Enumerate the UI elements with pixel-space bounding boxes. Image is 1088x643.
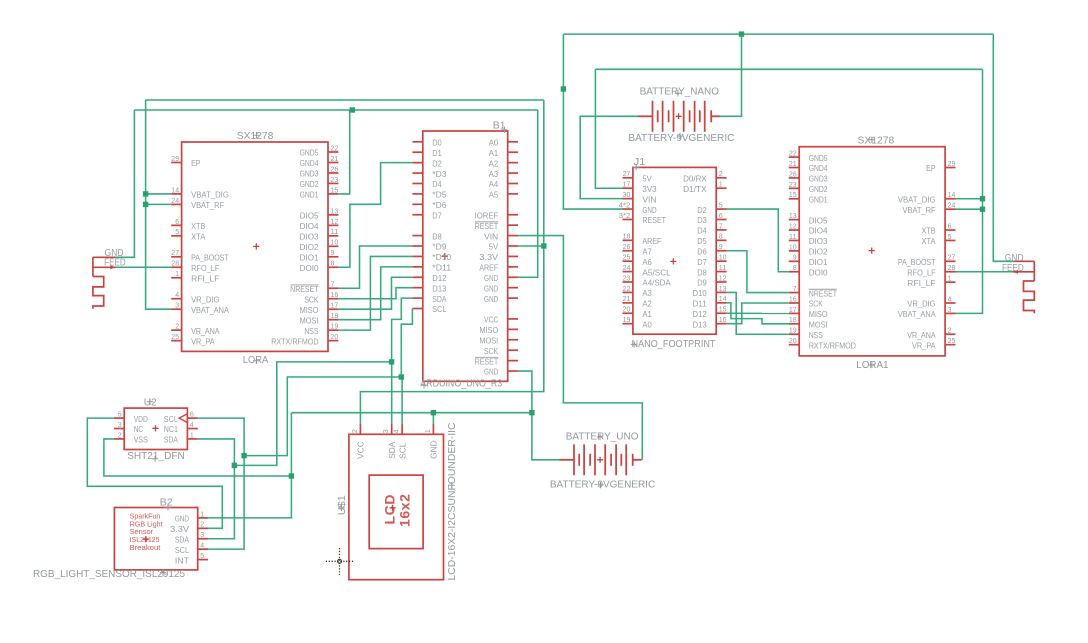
svg-text:LCD: LCD [382, 494, 398, 525]
svg-text:3: 3 [175, 301, 179, 310]
J1 pin 8 D5 [697, 232, 726, 246]
svg-text:12: 12 [789, 221, 797, 230]
B1 pin SCK [484, 346, 518, 356]
label B2 [160, 497, 173, 508]
svg-text:MISO: MISO [300, 305, 319, 315]
svg-text:VCC: VCC [356, 441, 366, 459]
LORA pin 10 DIO2 [300, 238, 339, 252]
IC LORA1 SX1278 body [799, 147, 945, 356]
svg-text:16: 16 [719, 315, 727, 324]
svg-text:SCL: SCL [397, 442, 407, 459]
svg-text:GND3: GND3 [809, 174, 828, 184]
junction GND J1 riser mid [561, 86, 566, 91]
svg-text:22: 22 [789, 149, 797, 158]
svg-text:GND: GND [429, 440, 439, 458]
LORA pin 28 RFO_LF [171, 259, 219, 273]
svg-text:SCL: SCL [432, 304, 446, 314]
B1 pin MISO [479, 325, 518, 335]
svg-text:SDA: SDA [164, 435, 179, 445]
svg-text:RESET: RESET [475, 221, 499, 231]
svg-text:ARDUINO_UNO_R3: ARDUINO_UNO_R3 [420, 378, 502, 389]
junction GND/LCD [431, 410, 436, 415]
wire GND riser from LORA GND1 [339, 110, 350, 194]
svg-text:MOSI: MOSI [300, 315, 319, 325]
svg-text:Breakout: Breakout [130, 545, 161, 552]
svg-text:A4: A4 [489, 179, 499, 189]
svg-text:SCK: SCK [484, 346, 499, 356]
J1 pin 16 D13 [693, 315, 727, 329]
LORA pin 19 NSS [304, 322, 338, 336]
svg-text:A2: A2 [642, 299, 652, 309]
U2 pin 5 VDD [114, 410, 148, 424]
B1 pin *D10 [412, 252, 451, 262]
svg-text:SCK: SCK [809, 299, 824, 309]
svg-text:2: 2 [118, 430, 122, 439]
svg-text:RGB Light: RGB Light [130, 521, 163, 528]
wire D6-NRESET right [727, 251, 789, 293]
svg-text:D4: D4 [697, 226, 707, 236]
svg-text:VBAT_DIG: VBAT_DIG [898, 194, 936, 204]
label SX1278 (LORA) [237, 131, 274, 142]
svg-text:D5: D5 [697, 236, 707, 246]
svg-text:INT: INT [175, 555, 189, 565]
LORA1 pin 6 XTB [921, 221, 955, 235]
svg-text:D1: D1 [432, 148, 442, 158]
svg-text:22: 22 [623, 284, 631, 293]
svg-text:19: 19 [789, 326, 797, 335]
svg-text:RESET: RESET [475, 356, 499, 366]
junction SDA LCD junction [389, 359, 394, 364]
J1 pin 11 D8 [697, 263, 726, 277]
LORA1 pin 14 VBAT_DIG [898, 190, 956, 204]
B1 pin D7 [412, 210, 442, 220]
wire Arduino 5V branch [518, 245, 544, 247]
svg-text:5: 5 [719, 200, 723, 209]
svg-text:D0/RX: D0/RX [683, 174, 707, 184]
label FEED (right antenna) [1002, 263, 1024, 274]
svg-text:20: 20 [623, 305, 631, 314]
IC B2 RGB light sensor body [114, 508, 197, 570]
text origin cross LORA [253, 358, 259, 364]
LORA pin 15 GND1 [300, 185, 339, 199]
svg-text:6: 6 [175, 217, 179, 226]
junction VBAT/VBAT_RF right [980, 207, 985, 212]
B1 pin GND [484, 367, 518, 377]
svg-text:GND5: GND5 [300, 148, 319, 158]
LORA1 pin 9 DIO1 [789, 253, 828, 267]
wire SDA to sensors [234, 362, 391, 466]
svg-text:5: 5 [948, 232, 952, 241]
svg-text:VBAT_ANA: VBAT_ANA [191, 305, 229, 315]
text origin cross SHT21_DFN [152, 456, 158, 462]
svg-text:13: 13 [789, 211, 797, 220]
LORA pin 5 XTA [171, 227, 205, 241]
svg-text:15: 15 [719, 305, 727, 314]
svg-text:27: 27 [171, 248, 179, 257]
text origin cross J1 [633, 164, 639, 170]
wire SCL to sensors [244, 377, 401, 456]
wire SCL Arduino jog [401, 309, 412, 377]
B1 pin VIN [484, 231, 518, 241]
B2 pin 3 SDA [175, 530, 208, 544]
svg-text:A5: A5 [489, 190, 499, 200]
B2 inner text RGB Light [130, 521, 163, 528]
svg-text:GND: GND [642, 205, 656, 215]
wire GND drop to Arduino GND [518, 110, 538, 277]
svg-text:1: 1 [719, 180, 723, 189]
label SX1278 (LORA1) [858, 136, 895, 147]
wire SDA SHT/RGB vertical [198, 439, 235, 539]
svg-text:5: 5 [118, 410, 122, 419]
IC U2 SHT21_DFN body [124, 408, 187, 449]
B1 pin IOREF [475, 210, 518, 220]
svg-text:VR_ANA: VR_ANA [191, 326, 220, 336]
svg-text:D6: D6 [697, 246, 707, 256]
wire VBAT_DIG branch [146, 193, 172, 195]
svg-text:14: 14 [719, 294, 727, 303]
svg-text:LCD-16X2-I2CSUNFOUNDER-IIC: LCD-16X2-I2CSUNFOUNDER-IIC [447, 422, 458, 580]
svg-text:5V: 5V [489, 242, 499, 252]
label ARDUINO_UNO_R3 [420, 378, 502, 389]
B1 pin D13 [412, 283, 446, 293]
junction VBAT/VBAT_DIG right [980, 196, 985, 201]
LORA1 pin 28 RFO_LF [907, 263, 955, 277]
LORA1 pin 4 VR_DIG [907, 294, 955, 308]
svg-text:SDA: SDA [387, 441, 397, 459]
svg-text:DIO2: DIO2 [809, 247, 828, 257]
svg-text:D11: D11 [693, 299, 708, 309]
B1 pin D4 [412, 179, 442, 189]
svg-text:14: 14 [948, 190, 956, 199]
svg-text:A3: A3 [489, 169, 499, 179]
LORA1 pin 25 VR_PA [912, 336, 956, 350]
B1 pin AREF [479, 263, 518, 273]
J1 pin 9 D6 [697, 242, 726, 256]
svg-text:VIN: VIN [484, 231, 498, 241]
LORA pin 29 EP [171, 154, 201, 168]
svg-text:4: 4 [200, 541, 204, 550]
svg-text:XTA: XTA [921, 236, 936, 246]
svg-text:4: 4 [948, 294, 952, 303]
svg-text:SparkFun: SparkFun [130, 514, 161, 521]
svg-text:13: 13 [331, 206, 339, 215]
B2 pin 5 INT [175, 551, 208, 565]
junction VBAT/VBAT_RF [143, 202, 148, 207]
svg-text:29: 29 [171, 154, 179, 163]
svg-text:XTA: XTA [191, 232, 206, 242]
svg-text:10: 10 [789, 242, 797, 251]
svg-text:12: 12 [719, 273, 727, 282]
svg-text:20: 20 [331, 332, 339, 341]
svg-text:*D3: *D3 [432, 169, 447, 179]
B1 pin A0 [489, 138, 518, 148]
svg-text:23: 23 [623, 273, 631, 282]
LORA pin 20 RXTX/RFMOD [271, 332, 338, 346]
LORA pin 6 XTB [171, 217, 205, 231]
wire SCL SHT/RGB vertical [198, 418, 244, 549]
junction GND/VSS branch [289, 473, 294, 478]
svg-text:11: 11 [719, 263, 727, 272]
svg-text:DOI0: DOI0 [809, 267, 828, 277]
svg-text:21: 21 [331, 154, 339, 163]
svg-text:1: 1 [190, 430, 194, 439]
LORA pin 9 DIO1 [300, 248, 339, 262]
IC LORA SX1278 body [182, 142, 328, 351]
svg-text:DIO4: DIO4 [300, 221, 319, 231]
svg-text:6: 6 [948, 221, 952, 230]
svg-text:19: 19 [331, 322, 339, 331]
label FEED (left antenna) [104, 258, 126, 269]
J1 pin 26 A7 [623, 242, 653, 256]
LORA1 pin 24 VBAT_RF [903, 201, 956, 215]
U$1 LCD pin 4 SCL [392, 424, 408, 459]
label NANO_FOOTPRINT [632, 339, 717, 350]
svg-text:8: 8 [719, 232, 723, 241]
svg-text:25: 25 [623, 253, 631, 262]
svg-text:D2: D2 [432, 158, 442, 168]
svg-text:DIO2: DIO2 [300, 242, 319, 252]
LORA1 pin 7 NRESET [789, 284, 837, 298]
svg-text:A1: A1 [489, 148, 499, 158]
svg-text:4: 4 [392, 429, 401, 433]
IC U2 origin mark [152, 425, 158, 431]
wire VBAT left riser to VBAT_ANA [146, 100, 172, 309]
svg-text:2: 2 [719, 169, 723, 178]
wire VIN to battery uno [518, 236, 642, 460]
svg-text:U$1: U$1 [337, 495, 348, 515]
svg-text:A1: A1 [642, 309, 652, 319]
svg-text:A6: A6 [642, 257, 652, 267]
svg-text:8: 8 [331, 259, 335, 268]
LORA pin 27 PA_BOOST [171, 248, 229, 262]
svg-text:9: 9 [331, 248, 335, 257]
svg-text:XTB: XTB [191, 221, 206, 231]
LORA1 pin 26 GND3 [789, 169, 828, 183]
B1 pin A4 [489, 179, 518, 189]
svg-text:3: 3 [948, 305, 952, 314]
svg-text:GND: GND [484, 283, 498, 293]
svg-text:11: 11 [331, 227, 339, 236]
LORA1 pin 23 GND2 [789, 180, 828, 194]
label BATTERY_NANO [640, 87, 719, 98]
wire VDD-3.3V [87, 418, 222, 528]
svg-text:*D6: *D6 [432, 200, 447, 210]
wire D10-NSS right [727, 292, 789, 334]
svg-text:SCK: SCK [304, 294, 319, 304]
IC B1 origin mark [442, 253, 448, 259]
B1 pin *D9 [412, 242, 446, 252]
label BATTERY-9VGENERIC (uno) [550, 480, 656, 491]
J1 pin 15 D12 [693, 305, 727, 319]
svg-text:18: 18 [789, 315, 797, 324]
svg-text:17: 17 [623, 180, 631, 189]
B1 pin A3 [489, 169, 518, 179]
B1 pin *D6 [412, 200, 446, 210]
svg-text:GND: GND [484, 294, 498, 304]
svg-text:VBAT_RF: VBAT_RF [191, 200, 224, 210]
svg-text:FEED: FEED [1002, 263, 1024, 274]
svg-text:28: 28 [171, 259, 179, 268]
svg-text:26: 26 [331, 164, 339, 173]
svg-text:15: 15 [331, 185, 339, 194]
svg-text:D13: D13 [693, 319, 708, 329]
svg-text:25: 25 [171, 332, 179, 341]
J1 pin 27 5V [623, 169, 653, 183]
text origin cross U2 [147, 399, 153, 405]
junction VBAT/VBAT_DIG [143, 191, 148, 196]
svg-text:D9: D9 [697, 278, 707, 288]
J1 pin 5 D2 [697, 200, 726, 214]
LORA pin 21 GND4 [300, 154, 339, 168]
LORA1 pin 8 DOI0 [789, 263, 828, 277]
J1 pin 21 A2 [623, 294, 653, 308]
wire VBAT right rail [595, 68, 982, 70]
junction GND/Arduino GND riser [529, 410, 534, 415]
svg-text:PA_BOOST: PA_BOOST [191, 253, 229, 263]
LORA1 pin 12 DIO4 [789, 221, 828, 235]
wire SDA Arduino jog [392, 298, 413, 362]
U2 pin 2 VSS [114, 430, 148, 444]
svg-text:24: 24 [948, 201, 956, 210]
U$1 LCD pin 2 VCC [350, 424, 366, 459]
svg-text:A7: A7 [642, 246, 652, 256]
wire GND Arduino bottom + battery uno minus [518, 371, 560, 460]
battery BATTERY_NANO BATTERY-9VGENERIC [637, 101, 720, 132]
LORA pin 25 VR_PA [171, 332, 215, 346]
text origin cross LCD label [449, 482, 455, 488]
wire GND branch to SHT VSS [104, 439, 292, 476]
svg-text:GND4: GND4 [300, 158, 319, 168]
svg-text:6: 6 [190, 410, 194, 419]
wire MOSI-*D11 [339, 267, 413, 320]
label GND (left antenna) [105, 248, 124, 259]
LORA1 pin 27 PA_BOOST [898, 253, 956, 267]
battery BATTERY_UNO BATTERY-9VGENERIC [559, 444, 642, 475]
svg-text:D1/TX: D1/TX [683, 184, 707, 194]
B1 pin D0 [412, 138, 442, 148]
LORA pin 2 VR_ANA [171, 322, 220, 336]
svg-text:27: 27 [948, 253, 956, 262]
LORA pin 24 VBAT_RF [171, 196, 224, 210]
svg-text:22: 22 [331, 143, 339, 152]
label U$1 [337, 495, 348, 515]
svg-text:VBAT_ANA: VBAT_ANA [898, 309, 936, 319]
label LCD-16X2-I2CSUNFOUNDER-IIC [447, 422, 458, 580]
wire D11-MOSI right [727, 303, 789, 324]
B1 pin RESET [475, 356, 518, 366]
wire GND LCD riser [432, 413, 434, 424]
svg-text:DIO3: DIO3 [300, 232, 319, 242]
svg-text:29: 29 [948, 159, 956, 168]
LORA1 pin 15 GND1 [789, 190, 828, 204]
svg-text:RFI_LF: RFI_LF [907, 278, 935, 288]
LCD text [382, 494, 398, 525]
J1 pin 20 A1 [623, 305, 653, 319]
wire FEED to RFO_LF (left) [116, 266, 171, 268]
LORA pin 26 GND3 [300, 164, 339, 178]
wire MISO-D12 [339, 277, 413, 309]
svg-text:9: 9 [719, 242, 723, 251]
wire VBAT right riser to VBAT_ANA [956, 69, 983, 313]
svg-text:20: 20 [789, 336, 797, 345]
svg-text:RESET: RESET [642, 215, 666, 225]
svg-text:7: 7 [719, 221, 723, 230]
svg-text:5: 5 [200, 551, 204, 560]
svg-text:VCC: VCC [484, 315, 498, 325]
LCD text 16x2 [397, 493, 413, 527]
svg-text:19: 19 [623, 315, 631, 324]
svg-text:*D10: *D10 [432, 252, 451, 262]
svg-text:3.3V: 3.3V [479, 252, 498, 262]
svg-text:13: 13 [719, 284, 727, 293]
svg-text:A4/SDA: A4/SDA [642, 278, 671, 288]
J1 pin 6 D3 [697, 211, 726, 225]
LORA1 pin 17 MISO [789, 305, 828, 319]
junction GND/GND1 riser [350, 107, 355, 112]
LORA pin 4 VR_DIG [171, 290, 219, 304]
svg-text:SCL: SCL [175, 545, 189, 555]
wire GND left drop to RGB [208, 413, 291, 518]
U2 pin 1 SDA [164, 430, 198, 444]
LORA pin 18 MOSI [300, 311, 339, 325]
svg-text:GND1: GND1 [300, 190, 319, 200]
svg-text:24: 24 [171, 196, 179, 205]
J1 pin 10 D7 [697, 253, 726, 267]
svg-text:6: 6 [719, 211, 723, 220]
junction SCL SHT junction [241, 453, 246, 458]
svg-text:NRESET: NRESET [290, 284, 318, 294]
svg-text:VDD: VDD [134, 414, 148, 424]
svg-text:SDA: SDA [175, 534, 190, 544]
wire VBAT_RF branch right [956, 208, 983, 210]
svg-text:3.3V: 3.3V [170, 524, 189, 534]
B1 pin GND [484, 273, 518, 283]
svg-text:AREF: AREF [642, 236, 661, 246]
svg-text:SHT21_DFN: SHT21_DFN [127, 451, 185, 462]
svg-text:D13: D13 [432, 283, 447, 293]
LORA pin 16 SCK [304, 290, 338, 304]
wire GND top right rail [563, 33, 993, 35]
B1 pin D1 [412, 148, 442, 158]
svg-text:EP: EP [191, 158, 201, 168]
wire D12-MISO right [727, 312, 789, 314]
junction SCL LCD junction [399, 374, 404, 379]
label LORA [243, 355, 268, 366]
B2 origin mark [143, 536, 149, 542]
B1 pin D12 [412, 273, 446, 283]
B2 pin 2 3.3V [170, 520, 208, 534]
wire battery nano minus to VIN [580, 116, 638, 198]
sheet origin marker [326, 548, 354, 575]
svg-text:10: 10 [331, 238, 339, 247]
LORA pin 3 VBAT_ANA [171, 301, 229, 315]
LORA pin 14 VBAT_DIG [171, 185, 229, 199]
svg-text:16: 16 [789, 294, 797, 303]
svg-text:2: 2 [350, 429, 359, 433]
B1 pin *D3 [412, 169, 446, 179]
B1 pin SDA [412, 294, 446, 304]
text origin cross BATTERY-9VGENERIC nano [677, 133, 683, 139]
J1 pin 19 A0 [623, 315, 653, 329]
svg-text:RFO_LF: RFO_LF [191, 263, 219, 273]
svg-text:GND3: GND3 [300, 169, 319, 179]
svg-text:VR_ANA: VR_ANA [907, 330, 936, 340]
J1 pin 14 D11 [693, 294, 727, 308]
svg-text:26: 26 [789, 169, 797, 178]
J1 pin 1 D1/TX [683, 180, 726, 194]
LORA1 pin 2 VR_ANA [907, 326, 955, 340]
svg-text:7: 7 [793, 284, 797, 293]
